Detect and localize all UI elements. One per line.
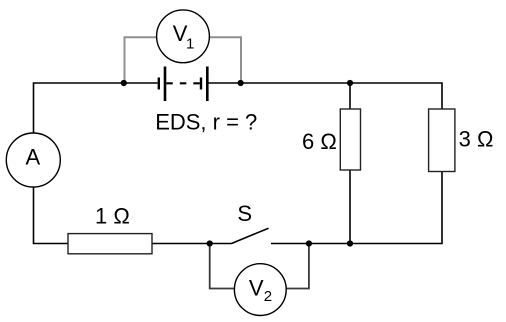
- voltmeter V1: [157, 10, 210, 63]
- node junction dot V1 left: [121, 80, 127, 86]
- battery cell 1 long plate: [164, 67, 167, 102]
- node junction dot V1 right: [238, 80, 244, 86]
- ammeter A: [6, 133, 60, 187]
- svg-text:1 Ω: 1 Ω: [95, 204, 130, 229]
- battery dashed link (more cells): [166, 82, 200, 84]
- svg-text:1: 1: [186, 35, 194, 52]
- node junction dot V2 right: [306, 240, 312, 246]
- svg-text:V: V: [249, 275, 264, 300]
- wire V1 loop right (gray): [210, 37, 241, 83]
- wire 6-ohm branch: [349, 83, 351, 244]
- svg-text:S: S: [237, 201, 252, 226]
- wire V1 loop left (gray): [125, 37, 157, 83]
- node junction dot switch left: [207, 240, 213, 246]
- node junction dot 6-ohm bottom: [347, 240, 353, 246]
- resistor 3 ohm: [429, 109, 455, 172]
- svg-text:2: 2: [264, 288, 272, 305]
- switch S blade: [232, 228, 269, 243]
- svg-text:6 Ω: 6 Ω: [302, 129, 337, 154]
- battery cell 2 long plate: [206, 67, 209, 102]
- wire V2 loop left: [210, 244, 235, 289]
- battery cell 2 short plate: [200, 78, 202, 90]
- node junction dot 6-ohm top: [347, 80, 353, 86]
- svg-text:3 Ω: 3 Ω: [459, 127, 494, 152]
- svg-text:EDS, r = ?: EDS, r = ?: [155, 109, 257, 134]
- wire right loop (battery right lead, right branch, bottom to switch): [209, 83, 443, 244]
- voltmeter V2: [234, 264, 286, 316]
- svg-text:A: A: [26, 145, 41, 170]
- resistor 6 ohm: [340, 109, 360, 170]
- resistor R1 1 ohm: [68, 234, 152, 254]
- wire V2 loop right: [286, 244, 309, 289]
- wire left loop (top-left lead, left branch, bottom to switch hinge): [34, 83, 232, 244]
- battery cell 1 short plate: [158, 78, 160, 90]
